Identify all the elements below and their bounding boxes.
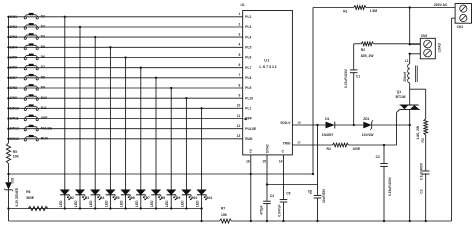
label U1 pin PL6 bbox=[245, 56, 251, 60]
label LED9 bbox=[180, 196, 197, 207]
label U1 pin 10 number bbox=[237, 104, 241, 108]
svg-text:Q1: Q1 bbox=[397, 90, 402, 94]
label U1 pin15 SYNC bbox=[262, 144, 269, 164]
wire row SW12 to U1 pin 12 bbox=[9, 128, 243, 130]
net label PULSE bbox=[41, 126, 53, 130]
svg-text:D10: D10 bbox=[191, 196, 197, 200]
junction bus row 5 bbox=[7, 56, 9, 58]
wire rail to CN2 pin1 bbox=[410, 8, 421, 45]
switch SW7 bbox=[24, 74, 38, 80]
wire R3 to C3 bbox=[425, 135, 427, 171]
svg-text:R3: R3 bbox=[421, 138, 425, 142]
svg-text:10K: 10K bbox=[221, 213, 228, 217]
svg-text:0.47uF/400V: 0.47uF/400V bbox=[344, 68, 348, 88]
junction C1 on VDD line bbox=[353, 124, 355, 126]
label LED5 bbox=[120, 196, 135, 207]
svg-text:10K: 10K bbox=[13, 155, 20, 159]
svg-text:L1: L1 bbox=[405, 59, 409, 63]
switch SW2 bbox=[24, 23, 38, 29]
LED5 (D6) bbox=[121, 190, 132, 209]
svg-text:PL5: PL5 bbox=[245, 46, 251, 50]
junction bus row 12 bbox=[7, 128, 9, 130]
wire column node D11 down to LED10 bbox=[201, 108, 203, 190]
svg-text:R5: R5 bbox=[13, 150, 17, 154]
svg-text:D2: D2 bbox=[70, 196, 74, 200]
inductor L1 200uH bbox=[403, 59, 417, 83]
label U1 pin PL4 bbox=[245, 35, 251, 39]
LED7 (D8) bbox=[151, 190, 162, 209]
switch SW13 bbox=[24, 135, 38, 141]
svg-text:VDD-V: VDD-V bbox=[280, 121, 291, 125]
label U1 part number bbox=[259, 58, 277, 69]
svg-text:D6: D6 bbox=[130, 196, 134, 200]
wire U1 pin15 SYNC down bbox=[266, 155, 268, 201]
wire -V common line bbox=[9, 173, 314, 175]
wire CN2 top feed bbox=[354, 43, 421, 45]
wire row SW5 to U1 pin 5 bbox=[9, 57, 243, 59]
wire row SW13 to U1 pin 13 bbox=[9, 138, 243, 140]
svg-text:PL9: PL9 bbox=[245, 86, 251, 90]
LED10 (D11) bbox=[197, 190, 208, 209]
svg-text:7: 7 bbox=[238, 73, 240, 77]
svg-text:D3: D3 bbox=[85, 196, 89, 200]
svg-text:D5: D5 bbox=[115, 196, 119, 200]
wire row SW7 to U1 pin 7 bbox=[9, 77, 243, 79]
junction bus row 3 bbox=[7, 36, 9, 38]
switch SW3 bbox=[24, 33, 38, 39]
svg-text:PL1: PL1 bbox=[245, 107, 251, 111]
junction -V line pin16 bbox=[250, 173, 252, 175]
svg-text:TRIG: TRIG bbox=[283, 141, 291, 145]
junction -V line V1 end bbox=[312, 173, 314, 175]
svg-text:19: 19 bbox=[297, 120, 301, 124]
junction row 7 column bbox=[155, 77, 157, 79]
svg-text:9: 9 bbox=[238, 94, 240, 98]
svg-text:13V/1W: 13V/1W bbox=[362, 133, 375, 137]
svg-text:SW5: SW5 bbox=[10, 56, 17, 60]
wire triac MT1 down to rail bbox=[409, 109, 411, 221]
junction C6 rail bbox=[316, 220, 318, 222]
label SW11 bbox=[10, 117, 19, 121]
svg-text:1N4007: 1N4007 bbox=[322, 133, 334, 137]
label U1 pin16 +V bbox=[246, 148, 253, 163]
wire R3 branch bbox=[410, 89, 426, 119]
connector CN2 LOAD bbox=[420, 34, 441, 59]
wire row SW4 to U1 pin 4 bbox=[9, 46, 243, 48]
label SW6 bbox=[10, 66, 17, 70]
LED4 (D5) bbox=[106, 190, 117, 209]
label U1 pin RUN bbox=[245, 137, 253, 141]
wire row SW10 to U1 pin 10 bbox=[9, 107, 243, 109]
svg-text:CN2: CN2 bbox=[421, 34, 428, 38]
wire CN1 pin2 down right bus bbox=[452, 18, 456, 221]
svg-text:R6: R6 bbox=[26, 190, 30, 194]
switch SW11 bbox=[24, 115, 38, 121]
junction row 2 column bbox=[79, 26, 81, 28]
junction C2 rail bbox=[383, 220, 385, 222]
switch SW12 bbox=[24, 125, 38, 131]
wire column node D5 down to LED4 bbox=[109, 47, 111, 190]
svg-text:RUN: RUN bbox=[245, 137, 253, 141]
junction row 6 column bbox=[140, 67, 142, 69]
wire V1 from R1 corner down to -V line bbox=[312, 8, 314, 175]
net label D5 bbox=[41, 45, 45, 49]
svg-text:SW12: SW12 bbox=[10, 127, 19, 131]
wire column node D2 down to LED1 bbox=[64, 17, 66, 190]
diode D1 1N4007 bbox=[322, 117, 335, 137]
svg-text:PL6: PL6 bbox=[245, 56, 251, 60]
junction bottom rail LED drop bbox=[200, 220, 202, 222]
svg-text:D4: D4 bbox=[100, 196, 104, 200]
svg-text:D7: D7 bbox=[146, 196, 150, 200]
label SW3 bbox=[10, 35, 17, 39]
junction bus row 10 bbox=[7, 107, 9, 109]
svg-text:PULSE: PULSE bbox=[245, 127, 257, 131]
junction bus row 9 bbox=[7, 97, 9, 99]
svg-text:5: 5 bbox=[238, 53, 240, 57]
net label D4 bbox=[41, 35, 45, 39]
junction bus row 2 bbox=[7, 26, 9, 28]
wire column node D3 down to LED2 bbox=[79, 27, 81, 190]
svg-text:SW9: SW9 bbox=[10, 96, 17, 100]
svg-text:LED: LED bbox=[180, 200, 184, 207]
svg-text:SW1: SW1 bbox=[10, 15, 17, 19]
net label D9 bbox=[41, 86, 45, 90]
wire C1 to VDD line bbox=[353, 73, 355, 125]
svg-text:1.8K, 2W: 1.8K, 2W bbox=[416, 125, 420, 139]
junction bus row 1 bbox=[7, 16, 9, 18]
svg-text:1.5M: 1.5M bbox=[370, 9, 378, 13]
svg-text:C3: C3 bbox=[419, 189, 423, 193]
LED1 (D2) bbox=[60, 190, 71, 209]
svg-text:LS7311: LS7311 bbox=[259, 64, 277, 69]
resistor R5 bbox=[6, 143, 19, 164]
svg-text:D4: D4 bbox=[41, 35, 45, 39]
svg-text:SW3: SW3 bbox=[10, 35, 17, 39]
junction bus row 4 bbox=[7, 46, 9, 48]
svg-text:PL8: PL8 bbox=[245, 76, 251, 80]
wire row SW8 to U1 pin 8 bbox=[9, 87, 243, 89]
wire R6 line / LED cathode rail bbox=[9, 208, 202, 210]
svg-text:D8: D8 bbox=[41, 75, 45, 79]
svg-text:LED: LED bbox=[150, 200, 154, 207]
svg-text:D9: D9 bbox=[41, 86, 45, 90]
svg-text:R2: R2 bbox=[361, 48, 365, 52]
wire column node D7 down to LED6 bbox=[140, 68, 142, 191]
junction bus row 7 bbox=[7, 77, 9, 79]
wire row SW3 to U1 pin 3 bbox=[9, 36, 243, 38]
svg-text:LED: LED bbox=[196, 200, 200, 207]
svg-text:D2: D2 bbox=[41, 14, 45, 18]
connector CN1 230V AC bbox=[455, 4, 471, 29]
label U1 pin 9 number bbox=[238, 94, 240, 98]
label U1 pin PL3 bbox=[245, 25, 251, 29]
switch SW1 bbox=[24, 13, 38, 19]
label U1 pin PL9 bbox=[245, 86, 251, 90]
svg-text:4: 4 bbox=[238, 43, 240, 47]
label U1 pin PL5 bbox=[245, 46, 251, 50]
svg-text:D9: D9 bbox=[176, 196, 180, 200]
svg-text:LED: LED bbox=[104, 200, 108, 207]
svg-text:R1: R1 bbox=[343, 9, 347, 13]
svg-text:13: 13 bbox=[237, 134, 241, 138]
svg-text:1: 1 bbox=[238, 12, 240, 16]
svg-text:D11: D11 bbox=[41, 106, 47, 110]
resistor R1 bbox=[343, 6, 377, 14]
svg-text:LED: LED bbox=[89, 200, 93, 207]
svg-text:230V AC: 230V AC bbox=[434, 3, 448, 7]
wire L1 to triac bbox=[409, 83, 411, 89]
label U1 pin PL1 bbox=[245, 107, 251, 111]
svg-text:D8: D8 bbox=[161, 196, 165, 200]
junction bus row 11 bbox=[7, 117, 9, 119]
svg-text:CN1: CN1 bbox=[457, 25, 464, 29]
label U1 pin 7 number bbox=[238, 73, 240, 77]
wire column node D8 down to LED7 bbox=[155, 78, 157, 190]
wire row SW1 to U1 pin 1 bbox=[9, 16, 243, 18]
wire column node D9 down to LED8 bbox=[170, 88, 172, 190]
capacitor C6 10uF/25V bbox=[308, 185, 326, 222]
net label D2 bbox=[41, 14, 45, 18]
switch SW9 bbox=[24, 94, 38, 100]
junction V2 VDD line bbox=[316, 124, 318, 126]
svg-text:D6: D6 bbox=[41, 55, 45, 59]
resistor R4 bbox=[327, 143, 362, 151]
svg-text:3: 3 bbox=[238, 33, 240, 37]
svg-text:82E, 2W: 82E, 2W bbox=[361, 54, 375, 58]
label SW12 bbox=[10, 127, 19, 131]
svg-text:0.15uF/400V: 0.15uF/400V bbox=[388, 176, 392, 196]
switch SW6 bbox=[24, 64, 38, 70]
svg-text:14: 14 bbox=[279, 160, 283, 164]
svg-text:SW13: SW13 bbox=[10, 137, 19, 141]
junction row 1 column bbox=[64, 16, 66, 18]
junction C2 on TRIG line bbox=[383, 144, 385, 146]
junction C4 rail bbox=[266, 220, 268, 222]
svg-text:U1: U1 bbox=[241, 3, 245, 7]
label SW5 bbox=[10, 56, 17, 60]
resistor R6 bbox=[26, 190, 48, 211]
svg-text:15: 15 bbox=[262, 160, 266, 164]
svg-text:LED: LED bbox=[74, 200, 78, 207]
capacitor C4 bbox=[259, 194, 274, 221]
junction CN2 pin1 corner bbox=[409, 43, 411, 45]
junction SYNC V2 bbox=[266, 183, 268, 185]
net label RUN bbox=[41, 136, 49, 140]
label LED4 bbox=[104, 196, 119, 207]
U1 OFF input arrow bbox=[243, 118, 246, 121]
junction row 5 column bbox=[124, 56, 126, 58]
svg-text:LED: LED bbox=[59, 200, 63, 207]
svg-text:D3: D3 bbox=[41, 25, 45, 29]
junction row 8 column bbox=[170, 87, 172, 89]
label U1 pin 2 number bbox=[238, 22, 240, 26]
svg-text:PL2: PL2 bbox=[245, 15, 251, 19]
svg-text:PL4: PL4 bbox=[245, 35, 251, 39]
svg-text:SW2: SW2 bbox=[10, 25, 17, 29]
svg-text:11: 11 bbox=[237, 114, 241, 118]
svg-text:17: 17 bbox=[297, 140, 301, 144]
switch SW10 bbox=[24, 104, 38, 110]
label SW1 bbox=[10, 15, 17, 19]
label SW8 bbox=[10, 86, 17, 90]
junction bus row 6 bbox=[7, 67, 9, 69]
svg-text:SW8: SW8 bbox=[10, 86, 17, 90]
net label OFF bbox=[41, 116, 48, 120]
svg-text:RUN: RUN bbox=[41, 136, 49, 140]
svg-text:D5: D5 bbox=[41, 45, 45, 49]
junction C3 rail bbox=[425, 220, 427, 222]
svg-text:R7: R7 bbox=[221, 207, 225, 211]
wire zener to bottom bbox=[8, 190, 10, 221]
svg-text:D32: D32 bbox=[11, 177, 15, 183]
label U1 pin19 VDD-V bbox=[280, 120, 301, 125]
label LED7 bbox=[150, 196, 165, 207]
wire row SW11 to U1 pin 11 bbox=[9, 118, 243, 120]
svg-text:2: 2 bbox=[238, 22, 240, 26]
svg-text:12: 12 bbox=[237, 124, 241, 128]
svg-text:6: 6 bbox=[238, 63, 240, 67]
svg-text:560E: 560E bbox=[26, 196, 35, 200]
label LED3 bbox=[89, 196, 104, 207]
svg-text:ZD1: ZD1 bbox=[363, 117, 369, 121]
svg-text:PL7: PL7 bbox=[245, 66, 251, 70]
junction bus row 8 bbox=[7, 87, 9, 89]
wire V2 from VDD line down bbox=[317, 125, 319, 185]
wire VDD-V pin19 line bbox=[292, 124, 409, 126]
svg-text:SYNC: SYNC bbox=[265, 144, 269, 154]
svg-text:470pF: 470pF bbox=[259, 205, 263, 214]
LED8 (D9) bbox=[167, 190, 178, 209]
wire column node D10 down to LED9 bbox=[185, 98, 187, 190]
svg-text:OFF: OFF bbox=[41, 116, 48, 120]
label U1 pin PL10 bbox=[245, 96, 253, 100]
wire TRIG pin17 line bbox=[292, 144, 396, 146]
label U1 pin 12 number bbox=[237, 124, 241, 128]
svg-text:BT136: BT136 bbox=[396, 95, 406, 99]
wire row SW9 to U1 pin 9 bbox=[9, 97, 243, 99]
label SW7 bbox=[10, 76, 17, 80]
svg-text:200uH: 200uH bbox=[403, 71, 407, 81]
zener ZD1 13V/1W bbox=[362, 117, 375, 137]
op-amp U1 LS7311 body bbox=[243, 11, 293, 155]
svg-text:D11: D11 bbox=[206, 196, 212, 200]
svg-text:16: 16 bbox=[246, 160, 250, 164]
svg-text:SW6: SW6 bbox=[10, 66, 17, 70]
svg-text:8: 8 bbox=[238, 83, 240, 87]
net label D10 bbox=[41, 96, 47, 100]
junction row 3 column bbox=[94, 36, 96, 38]
transistor Q1 BT136 triac bbox=[396, 90, 420, 110]
label U1 pin14 C bbox=[282, 150, 285, 154]
label U1 pin OFF bbox=[245, 117, 252, 121]
junction bus row 13 bbox=[7, 138, 9, 140]
svg-text:100E: 100E bbox=[353, 147, 362, 151]
net label D8 bbox=[41, 75, 45, 79]
capacitor C3 bbox=[419, 162, 429, 221]
label 230V AC bbox=[434, 3, 448, 7]
junction row 4 column bbox=[109, 46, 111, 48]
wire left bus vertical bbox=[8, 17, 10, 143]
junction LED10 cathode rail bbox=[200, 207, 202, 209]
wire V2 horizontal to SYNC bbox=[267, 184, 318, 186]
label U1 pin 4 number bbox=[238, 43, 240, 47]
label U1 pin PL8 bbox=[245, 76, 251, 80]
label U1 pin14 number bbox=[279, 160, 283, 164]
svg-text:C1: C1 bbox=[356, 75, 360, 79]
label U1 pin 13 number bbox=[237, 134, 241, 138]
wire column node D4 down to LED3 bbox=[94, 37, 96, 190]
label SW10 bbox=[10, 106, 19, 110]
label LED10 bbox=[196, 196, 213, 207]
label U1 pin 1 number bbox=[238, 12, 240, 16]
junction row 10 column bbox=[200, 107, 202, 109]
svg-text:PL10: PL10 bbox=[245, 96, 253, 100]
svg-text:LED: LED bbox=[165, 200, 169, 207]
label U1 pin PL2 bbox=[245, 15, 251, 19]
junction top rail CN2 drop bbox=[409, 6, 411, 8]
svg-text:SW7: SW7 bbox=[10, 76, 17, 80]
wire U1 pin14 C down bbox=[283, 155, 285, 200]
label LED2 bbox=[74, 196, 89, 207]
label U1 pin 6 number bbox=[238, 63, 240, 67]
junction C5 rail bbox=[282, 220, 284, 222]
wire R5 to zener bbox=[8, 164, 10, 183]
junction LED4 cathode rail bbox=[109, 207, 111, 209]
label U1 pin PL7 bbox=[245, 66, 251, 70]
label U1 designator bbox=[241, 3, 245, 7]
junction LED8 cathode rail bbox=[170, 207, 172, 209]
junction row 9 column bbox=[185, 97, 187, 99]
svg-text:LED: LED bbox=[135, 200, 139, 207]
switch SW5 bbox=[24, 54, 38, 60]
net label D11 bbox=[41, 106, 47, 110]
svg-text:PL3: PL3 bbox=[245, 25, 251, 29]
label SW13 bbox=[10, 137, 19, 141]
junction LED2 cathode rail bbox=[79, 207, 81, 209]
net label D7 bbox=[41, 65, 45, 69]
svg-text:R4: R4 bbox=[327, 147, 331, 151]
capacitor C1 0.47uF/400V bbox=[344, 68, 360, 88]
svg-text:C6: C6 bbox=[308, 190, 312, 194]
net label D3 bbox=[41, 25, 45, 29]
resistor R3 bbox=[416, 119, 427, 143]
wire gate riser bbox=[397, 109, 400, 145]
LED3 (D4) bbox=[91, 190, 102, 209]
label SW4 bbox=[10, 45, 17, 49]
switch SW8 bbox=[24, 84, 38, 90]
svg-text:LED: LED bbox=[120, 200, 124, 207]
svg-text:SW10: SW10 bbox=[10, 106, 19, 110]
svg-text:SW11: SW11 bbox=[10, 117, 19, 121]
label SW2 bbox=[10, 25, 17, 29]
resistor R2 bbox=[361, 42, 375, 58]
wire triac MT2 bbox=[409, 89, 411, 105]
junction LED1 cathode rail bbox=[64, 207, 66, 209]
junction triac rail bbox=[409, 220, 411, 222]
wire column node D6 down to LED5 bbox=[125, 58, 127, 191]
svg-text:10: 10 bbox=[237, 104, 241, 108]
resistor R7 bbox=[220, 207, 232, 224]
label LED1 bbox=[59, 196, 74, 207]
svg-text:0.047uF: 0.047uF bbox=[277, 204, 281, 216]
wire U1 pin16 -V down to rail bbox=[250, 155, 252, 221]
capacitor C2 bbox=[376, 145, 392, 221]
label U1 pin PULSE bbox=[245, 127, 257, 131]
junction LED9 cathode rail bbox=[185, 207, 187, 209]
svg-text:10uF/25V: 10uF/25V bbox=[322, 188, 326, 203]
LED2 (D3) bbox=[75, 190, 86, 209]
